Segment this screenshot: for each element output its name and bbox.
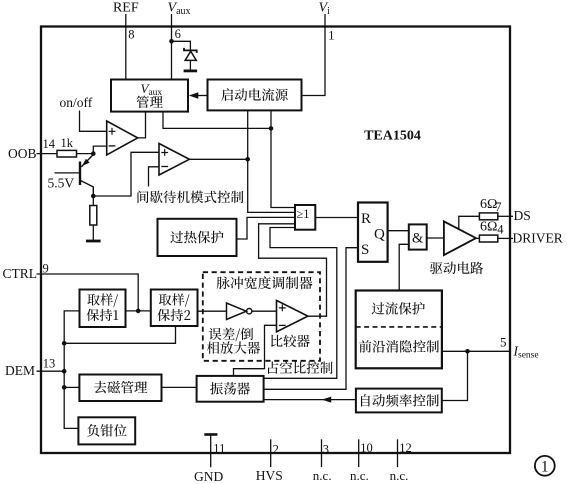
wire U1 - input — [93, 146, 106, 154]
block startup current source — [208, 80, 302, 111]
wire startup source to OR input 2 — [248, 110, 295, 212]
op-amp U1 on/off comparator — [107, 121, 138, 155]
gate label & — [412, 230, 424, 246]
block automatic frequency control — [356, 389, 442, 413]
svg-text:OOB: OOB — [8, 146, 37, 161]
pin number 3 — [323, 442, 329, 456]
latch label R — [361, 211, 371, 227]
value 6ohm upper — [480, 197, 497, 212]
label OOB — [8, 146, 37, 161]
wire DEM net to sample2 bottom — [64, 326, 175, 343]
label GND — [194, 469, 223, 484]
label REF — [113, 1, 139, 16]
block negative clamp — [78, 417, 135, 444]
pin 8 REF lead — [125, 14, 127, 80]
svg-text:5.5V: 5.5V — [48, 176, 75, 191]
pin 10 nc lead — [358, 439, 360, 467]
label thermal protection — [170, 231, 223, 244]
flip-flop RS latch — [358, 203, 388, 262]
label leading edge blanking control — [359, 340, 439, 353]
label automatic frequency control — [361, 394, 439, 407]
svg-text:14: 14 — [43, 137, 56, 151]
svg-text:DS: DS — [514, 208, 531, 223]
svg-text:GND: GND — [194, 469, 223, 484]
svg-text:9: 9 — [43, 262, 49, 276]
svg-text:1: 1 — [328, 29, 334, 43]
wire Q output to AND — [388, 230, 409, 232]
wire to zener — [172, 41, 191, 50]
label sample hold 1 line1 — [87, 293, 118, 306]
svg-text:DEM: DEM — [5, 363, 35, 378]
pin number 4 — [497, 222, 504, 236]
resistor 6ohm DS — [479, 213, 497, 220]
wire OOB pin 14 — [37, 153, 58, 155]
svg-text:1: 1 — [541, 459, 549, 476]
label DRIVER — [513, 230, 563, 245]
svg-text:2: 2 — [273, 442, 279, 456]
block demagnetization management — [79, 375, 161, 402]
block sample and hold 2 — [151, 290, 198, 327]
latch label Q — [374, 226, 385, 242]
pin number 13 — [43, 357, 56, 371]
node collector — [91, 151, 96, 156]
wire to pin 7 DS — [498, 215, 513, 217]
wire comparator output to OR input 4 — [259, 224, 327, 316]
svg-text:HVS: HVS — [256, 468, 283, 483]
svg-text:10: 10 — [360, 441, 373, 455]
pin number 6 — [175, 27, 181, 41]
svg-text:CTRL: CTRL — [3, 266, 38, 281]
wire driver tap to DS resistor — [459, 216, 480, 229]
label sample hold 2 line1 — [159, 293, 190, 306]
label Vi top — [319, 1, 331, 17]
label DS — [514, 208, 531, 223]
wire U2 output — [189, 158, 247, 160]
PWM dashed block — [203, 272, 320, 361]
svg-text:&: & — [412, 230, 424, 246]
error/inverting amplifier — [227, 303, 252, 320]
label oscillator — [210, 382, 250, 395]
resistor 1k — [57, 150, 77, 157]
label negative clamp — [87, 424, 126, 437]
wire Vaux mgmt to OR input 1 — [163, 112, 271, 129]
ground — [86, 240, 101, 243]
block thermal protection — [158, 219, 237, 256]
block overcurrent protection / leading edge blanking — [356, 291, 442, 369]
label duty cycle control — [268, 361, 333, 374]
zener diode D1 — [184, 48, 198, 71]
wire Isense to AFC — [442, 351, 468, 400]
AND gate — [409, 224, 427, 249]
wire resistor to node — [77, 153, 94, 155]
svg-text:n.c.: n.c. — [313, 468, 332, 483]
driver amplifier triangle — [444, 221, 476, 255]
label error/inverting line2 — [207, 341, 260, 354]
svg-text:4: 4 — [497, 222, 504, 236]
label CTRL — [3, 266, 38, 281]
pin number 12 — [399, 441, 412, 455]
OR gate >=1 — [295, 205, 315, 230]
wire CTRL pin 9 — [37, 274, 139, 311]
pin number 1 — [328, 29, 334, 43]
pin number 7 — [495, 200, 501, 214]
svg-text:≥1: ≥1 — [296, 207, 309, 221]
label drive circuit — [430, 262, 483, 275]
gate label >=1 — [296, 207, 309, 221]
op-amp U2 standby mode control — [159, 144, 189, 176]
node Vaux junction — [169, 39, 174, 44]
wire oscillator to comparator - input — [234, 325, 277, 376]
label nc 10 — [350, 468, 369, 483]
wire sample1 to sample2 — [126, 310, 151, 312]
value 1k — [61, 136, 74, 150]
node DEM pin junction — [62, 369, 67, 374]
svg-text:8: 8 — [128, 28, 134, 42]
label Vaux mgmt line2 (management) — [137, 96, 163, 109]
node emitter junction — [91, 194, 96, 199]
label nc 12 — [390, 468, 409, 483]
label Isense — [513, 343, 539, 360]
svg-text:6: 6 — [175, 27, 181, 41]
label overcurrent protection — [372, 302, 425, 315]
wire overcurrent to AND input 2 — [399, 244, 409, 290]
svg-text:5: 5 — [500, 335, 507, 350]
wire to demag management — [64, 386, 79, 388]
pin number 9 — [43, 262, 49, 276]
label sample hold 2 line2 — [157, 309, 190, 321]
wire to pin 4 DRIVER — [498, 237, 513, 239]
svg-text:1k: 1k — [61, 136, 74, 150]
svg-text:S: S — [361, 242, 369, 258]
label intermittent standby mode control — [138, 191, 244, 204]
pin 6 Vaux lead — [171, 14, 173, 80]
pin number 8 — [128, 28, 134, 42]
label sample hold 1 line2 — [87, 309, 119, 321]
wire U2 + input from emitter node — [93, 152, 159, 196]
figure number 1 — [541, 459, 549, 476]
wire OR output to R — [315, 217, 358, 219]
pin number 2 — [273, 442, 279, 456]
arrow startup to Vaux mgmt — [189, 92, 208, 99]
wire on/off to U1 + input — [80, 111, 107, 132]
label HVS — [256, 468, 283, 483]
latch label S — [361, 242, 369, 258]
svg-text:13: 13 — [43, 357, 56, 371]
wire thermal to OR input 3 — [237, 217, 296, 239]
wire driver output — [476, 237, 479, 239]
pin 12 nc lead — [397, 439, 399, 467]
svg-text:6Ω: 6Ω — [480, 219, 497, 234]
svg-text:Q: Q — [374, 226, 385, 242]
svg-text:n.c.: n.c. — [350, 468, 369, 483]
pin number 5 — [500, 335, 507, 350]
svg-text:3: 3 — [323, 442, 329, 456]
label on/off — [60, 95, 93, 110]
pin number 11 — [213, 441, 225, 455]
wire DEM pin 13 — [37, 370, 65, 372]
wire oscillator to OR input 5 — [264, 228, 337, 379]
pin 2 HVS lead — [270, 439, 272, 467]
label DEM — [5, 363, 35, 378]
pin number 10 — [360, 441, 373, 455]
wire sample1 left to DEM net — [64, 311, 79, 429]
wire demag to oscillator — [162, 386, 197, 388]
wire error amp to comparator + — [252, 310, 277, 312]
node on startup output 1 — [269, 126, 274, 131]
label nc 3 — [313, 468, 332, 483]
svg-text:DRIVER: DRIVER — [513, 230, 563, 245]
label startup current source — [221, 88, 288, 101]
arrow AFC to oscillator — [264, 397, 356, 403]
wire Isense pin 5 — [442, 350, 510, 352]
svg-text:on/off: on/off — [60, 95, 93, 110]
node standby output junction — [245, 157, 250, 162]
pin 11 GND lead — [204, 435, 217, 468]
node CTRL junction — [136, 309, 141, 314]
value 6ohm lower — [480, 219, 497, 234]
svg-text:n.c.: n.c. — [390, 468, 409, 483]
node Isense junction — [465, 349, 470, 354]
wire AND output to driver — [427, 237, 444, 239]
wire U1 output to Vaux mgmt — [138, 112, 146, 138]
node demag junction — [62, 385, 67, 390]
svg-text:11: 11 — [213, 441, 225, 455]
block sample and hold 1 — [80, 290, 126, 328]
pin 1 Vi lead — [302, 14, 326, 96]
resistor 6ohm DRIVER — [479, 235, 497, 242]
label pulse width modulator — [217, 276, 313, 289]
svg-text:REF: REF — [113, 1, 139, 16]
resistor R2 — [90, 196, 97, 240]
IC boundary — [41, 27, 510, 454]
label TEA1504 — [364, 129, 421, 144]
label error/inverting line1 — [209, 328, 253, 342]
comparator U3 — [277, 300, 308, 331]
pin 3 nc lead — [321, 439, 323, 467]
transistor Q1 — [55, 155, 94, 197]
block oscillator — [197, 376, 264, 402]
node DEM net top — [62, 341, 67, 346]
svg-text:R: R — [361, 211, 371, 227]
wire oscillator to S input — [264, 248, 358, 390]
block Vaux management — [111, 80, 188, 112]
pin number 14 — [43, 137, 56, 151]
svg-text:7: 7 — [495, 200, 501, 214]
label demagnetization management — [94, 381, 147, 394]
figure number circle 1 — [535, 456, 555, 476]
wire sample2 to error amp — [198, 310, 227, 312]
label Vaux top — [168, 1, 191, 17]
label Vaux mgmt line1 — [141, 81, 163, 98]
wire startup source to OR input 1 — [271, 110, 295, 207]
label comparator — [271, 335, 310, 348]
svg-text:12: 12 — [399, 441, 412, 455]
value 5.5V — [48, 176, 75, 191]
svg-text:TEA1504: TEA1504 — [364, 129, 421, 144]
wire U2 - input stub — [149, 167, 160, 187]
